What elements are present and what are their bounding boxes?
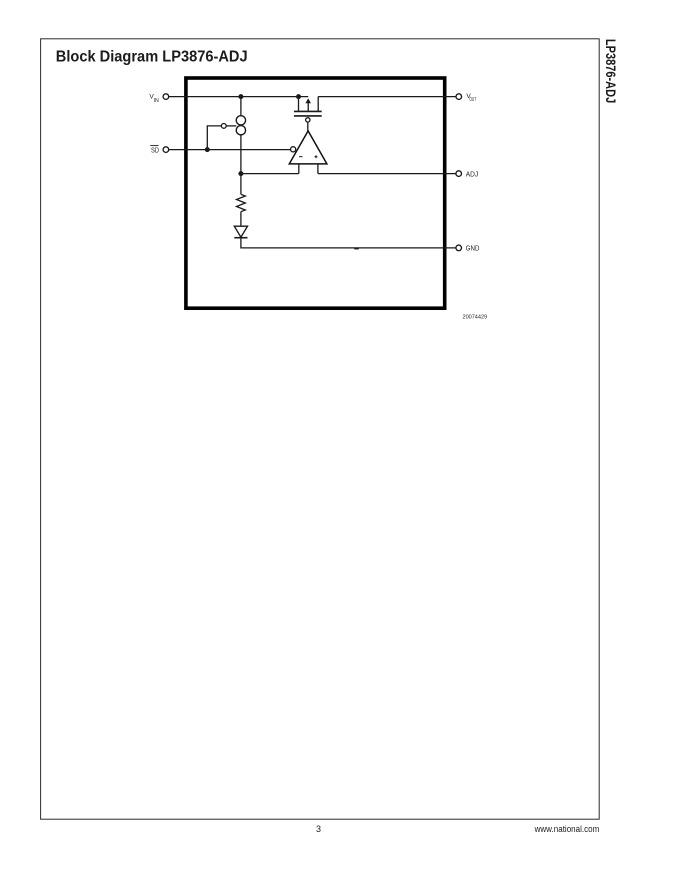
junction VIN / source (296, 94, 301, 99)
wire SD horizontal (169, 149, 291, 151)
resistor R1 (237, 194, 246, 211)
wire current-source vertical bottom to resistor (240, 135, 242, 195)
op-amp plus sign (315, 155, 318, 158)
gnd wire tick (354, 248, 359, 250)
svg-text:www.national.com: www.national.com (534, 824, 600, 834)
current source enable bubble (221, 124, 226, 129)
transistor Q1 source vertical (298, 97, 300, 112)
wire resistor to diode (240, 212, 242, 227)
terminal VOUT (456, 94, 462, 100)
terminal SD (163, 147, 169, 153)
op-amp plus input leg (317, 164, 319, 173)
op-amp minus input leg (298, 164, 300, 173)
current source I1 top circle (236, 116, 245, 125)
transistor Q1 gate lead (307, 122, 309, 131)
svg-text:OUT: OUT (469, 97, 476, 103)
op-amp U1 triangle (289, 131, 327, 164)
page frame (41, 39, 600, 819)
transistor Q1 channel bar (294, 110, 322, 112)
junction VIN / current source (238, 94, 243, 99)
svg-text:IN: IN (154, 98, 159, 104)
transistor Q1 drain vertical (317, 97, 319, 112)
op-amp minus sign (299, 156, 303, 158)
junction SD branch (205, 147, 210, 152)
wire ADJ right segment (318, 173, 456, 175)
transistor Q1 gate bar (294, 115, 322, 117)
wire current-source vertical top (240, 97, 242, 116)
op-amp shutdown input bubble (291, 147, 296, 152)
transistor Q1 arrow head (305, 98, 311, 103)
wire GND from diode (241, 238, 456, 248)
svg-text:3: 3 (316, 824, 321, 834)
wire bubble to current source (226, 125, 236, 127)
terminal GND (456, 245, 462, 251)
svg-text:20074429: 20074429 (463, 315, 488, 321)
transistor Q1 arrow shaft (307, 103, 309, 112)
op-amp gate drive bubble (306, 118, 310, 122)
junction ADJ / resistor (238, 171, 243, 176)
wire SD branch up to current source bubble (207, 126, 221, 150)
wire VOUT horizontal (318, 96, 456, 98)
diagram box (186, 78, 445, 308)
diode D1 cathode bar (234, 237, 247, 239)
svg-text:Block Diagram LP3876-ADJ: Block Diagram LP3876-ADJ (56, 48, 248, 65)
wire VIN horizontal (169, 96, 309, 98)
wire ADJ left segment (241, 173, 299, 175)
diode D1 (zener) triangle (234, 226, 247, 237)
terminal VIN (163, 94, 169, 100)
svg-text:GND: GND (466, 244, 480, 253)
svg-text:SD: SD (151, 148, 159, 155)
svg-text:LP3876-ADJ: LP3876-ADJ (603, 39, 619, 103)
current source I1 bottom circle (236, 126, 245, 135)
svg-text:ADJ: ADJ (466, 170, 479, 179)
terminal ADJ (456, 171, 462, 177)
